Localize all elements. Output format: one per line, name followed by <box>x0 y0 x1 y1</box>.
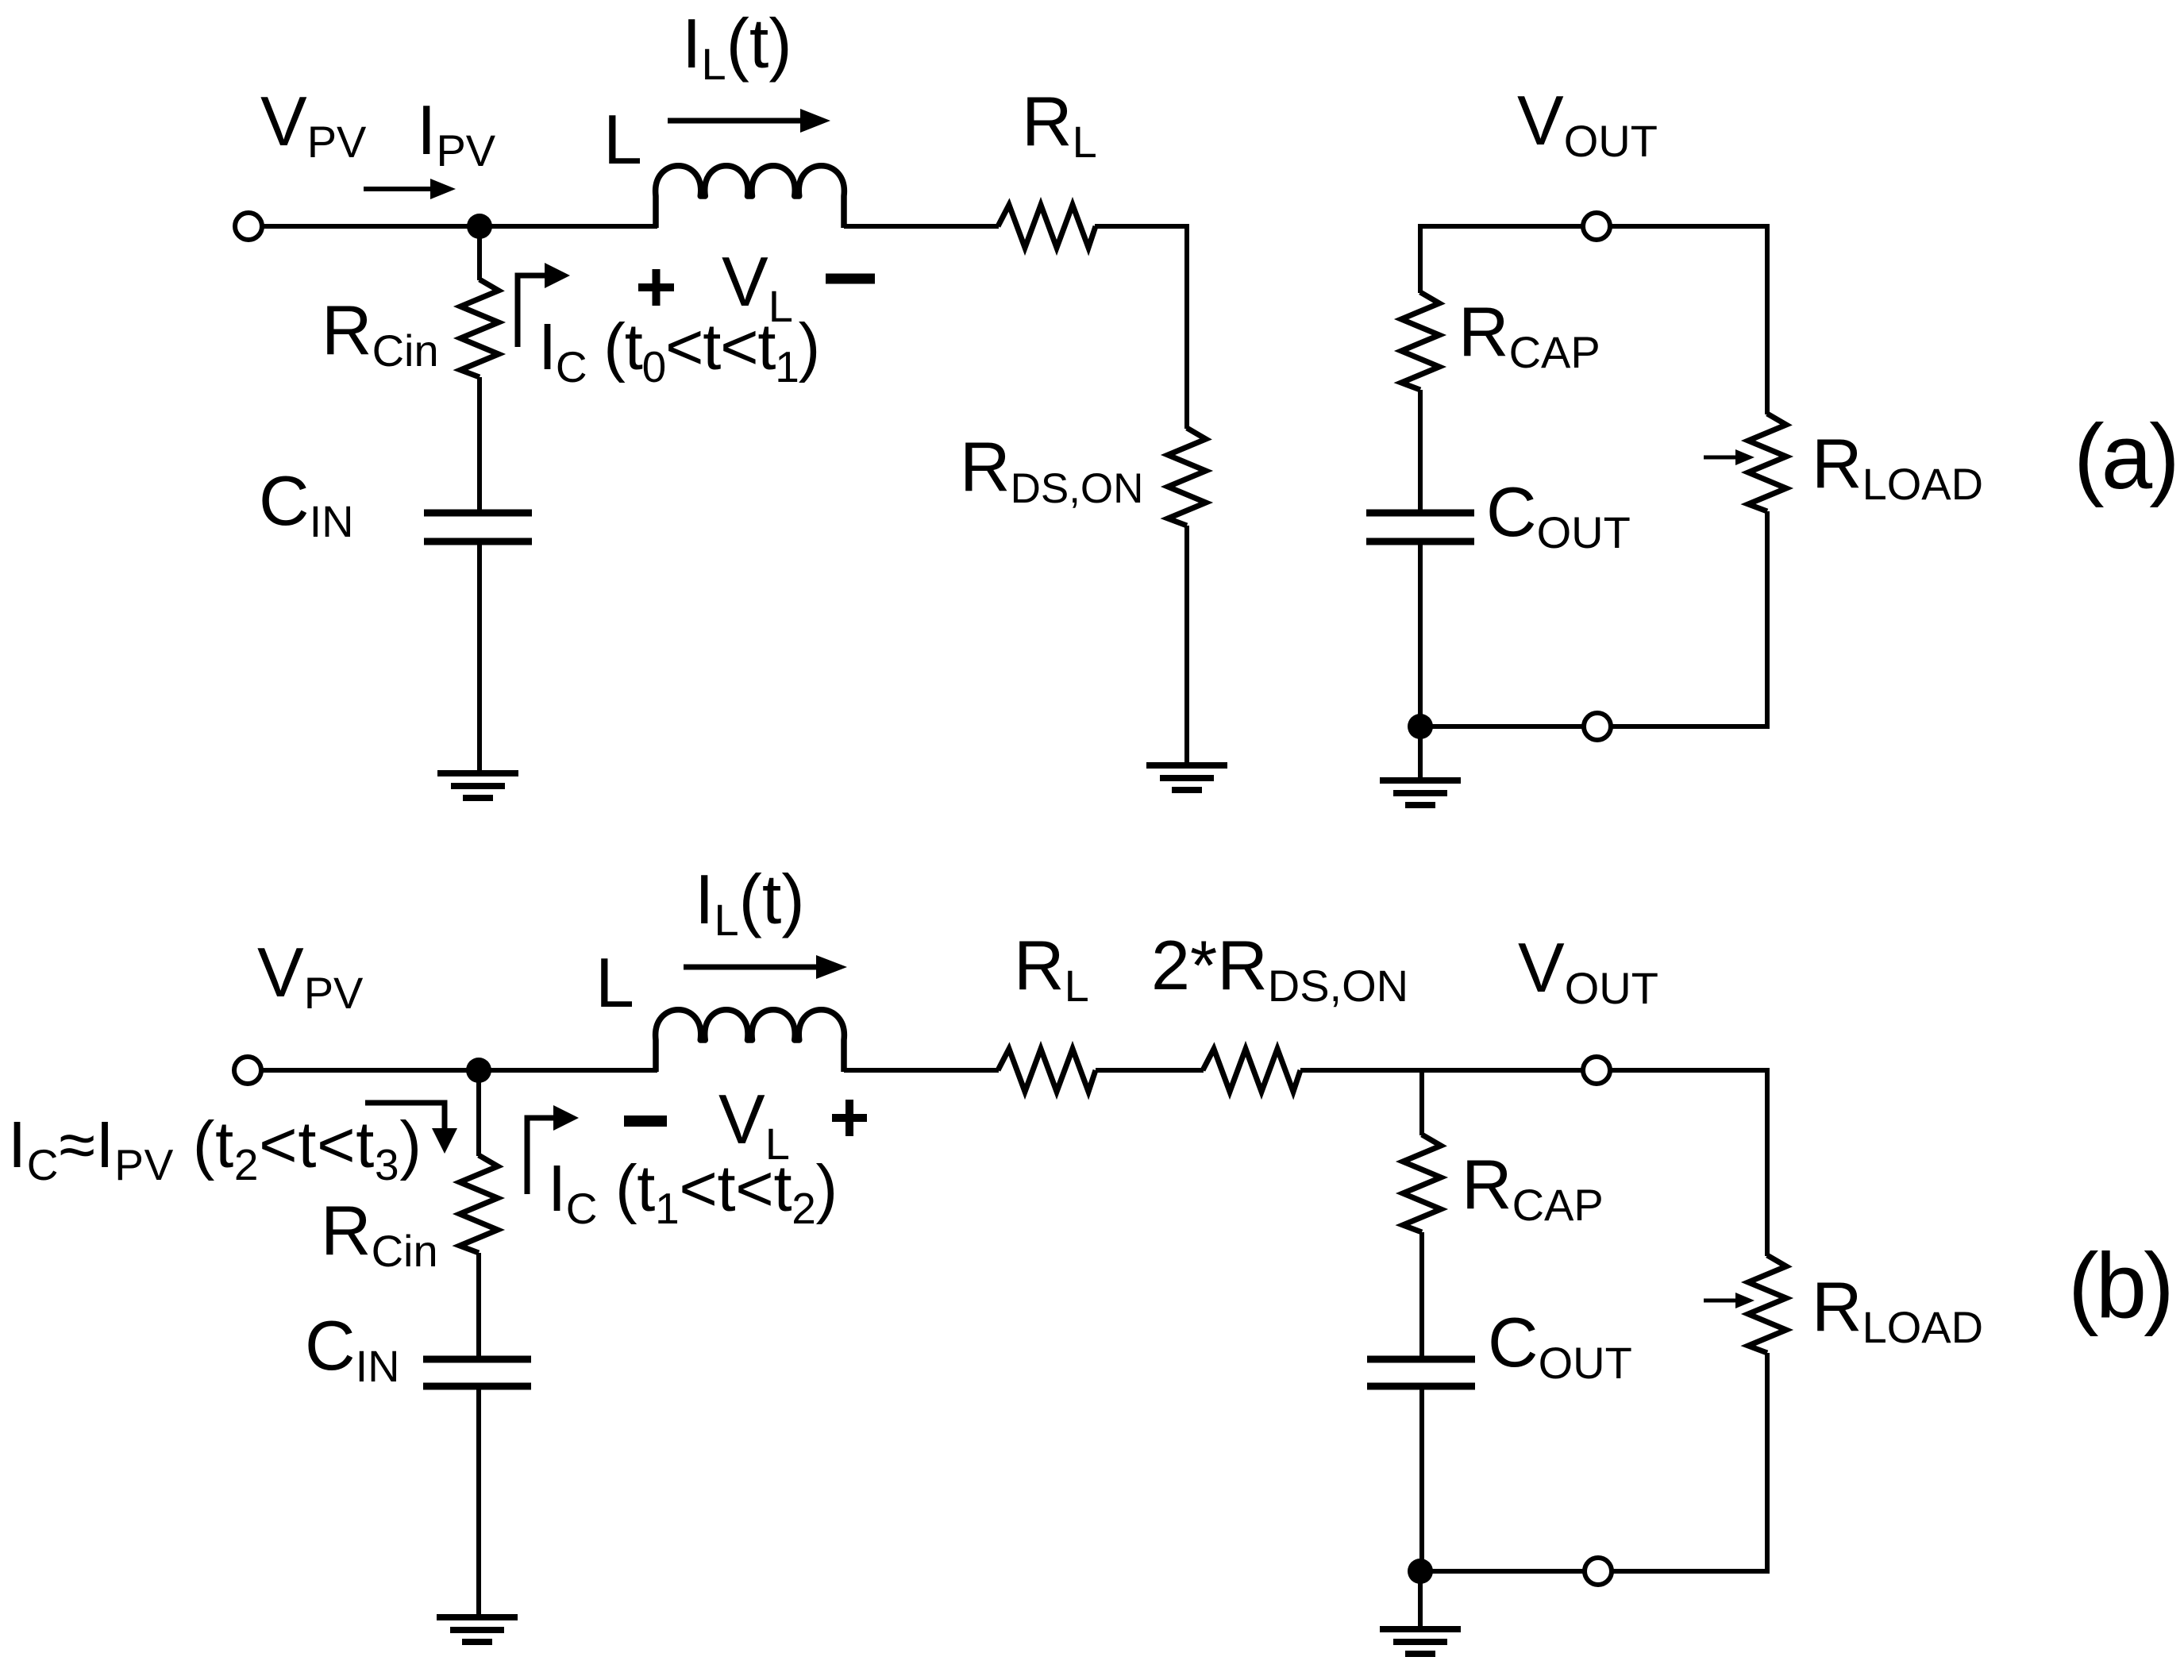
wire: right rail upper segment (b) <box>1765 1068 1770 1256</box>
arrow: bent I_C arrow at R_Cin (b) <box>527 1105 579 1194</box>
wire: output bottom rail (b) <box>1420 1569 1767 1574</box>
wire: node to ground (b) <box>1418 1571 1423 1629</box>
wire: inductor to R_L (a) <box>844 224 999 229</box>
resistor R_L (a) <box>998 205 1096 248</box>
wire: output bottom rail (a) <box>1420 724 1767 729</box>
ground: below R_DS,ON (a) <box>1146 765 1227 790</box>
capacitor C_OUT (b) <box>1367 1359 1475 1386</box>
circuit (a): input terminal (open circle) at V_PV <box>235 213 262 240</box>
inductor L (b) <box>656 1010 845 1072</box>
node: output ground node (a) <box>1408 714 1433 739</box>
wire: input terminal to inductor L (a) <box>262 224 657 229</box>
wire: right rail upper segment (a) <box>1765 224 1770 414</box>
terminal: output bottom (b) <box>1585 1558 1612 1585</box>
node: input node joining R_Cin branch (b) <box>466 1058 491 1083</box>
arrow: I_L(t) current arrow (b) <box>684 955 847 979</box>
ground: below C_IN (b) <box>437 1617 518 1642</box>
wire: R_Cin to C_IN (b) <box>476 1253 481 1358</box>
resistor R_LOAD rheostat (b) <box>1748 1255 1786 1353</box>
arrow: I_C ~ I_PV bent down-arrow (b) <box>365 1103 457 1154</box>
svg-text:L: L <box>603 100 642 179</box>
wire: node to R_Cin (b) <box>476 1070 481 1156</box>
wire: C_OUT to bottom node (a) <box>1418 545 1423 726</box>
wire: R_L to 2*R_DS,ON (b) <box>1096 1068 1204 1073</box>
label + plus sign of V_L (b) <box>832 1100 867 1136</box>
wire: C_IN to ground (a) <box>477 545 482 773</box>
wire: output top rail (a) <box>1420 224 1767 229</box>
resistor R_CAP (b) <box>1403 1135 1441 1232</box>
capacitor C_IN (a) <box>424 513 532 541</box>
ground: output network (b) <box>1380 1629 1461 1654</box>
wire: R_L to top-right corner (a) <box>1095 224 1189 229</box>
ground: output network (a) <box>1380 780 1461 805</box>
svg-text:(b): (b) <box>2068 1234 2171 1337</box>
terminal: output bottom (a) <box>1584 713 1611 740</box>
node: output ground node (b) <box>1408 1559 1433 1584</box>
wire: right rail lower segment (a) <box>1765 511 1770 729</box>
wire: vertical down to R_DS,ON (a) <box>1184 224 1189 429</box>
resistor R_Cin (b) <box>460 1155 498 1253</box>
arrow: I_L(t) current arrow (a) <box>668 109 830 133</box>
terminal: V_OUT top (a) <box>1583 213 1610 240</box>
arrow: rheostat wiper arrow (b) <box>1704 1293 1755 1308</box>
resistor 2*R_DS,ON (b) <box>1203 1049 1300 1092</box>
svg-text:(a): (a) <box>2074 405 2177 508</box>
resistor R_L (b) <box>998 1049 1096 1092</box>
wire: input terminal to inductor L (b) <box>261 1068 657 1073</box>
label - minus sign of V_L (b) <box>624 1116 667 1127</box>
wire: R_CAP to C_OUT (a) <box>1418 390 1423 511</box>
wire: C_IN to ground (b) <box>476 1389 481 1616</box>
svg-text:L: L <box>595 943 634 1022</box>
svg-text:IC≈IPV (t2<t<t3): IC≈IPV (t2<t<t3) <box>8 1108 422 1189</box>
circuit (b): input terminal (open circle) at V_PV <box>234 1057 261 1084</box>
wire: top rail down to R_CAP (a) <box>1418 224 1423 293</box>
inductor L (a) <box>656 166 845 228</box>
ground: below C_IN (a) <box>437 773 518 798</box>
resistor R_Cin (a) <box>460 279 499 377</box>
resistor R_LOAD rheostat (a) <box>1748 414 1786 511</box>
wire: right rail lower segment (b) <box>1765 1353 1770 1574</box>
wire: R_CAP to C_OUT (b) <box>1419 1232 1424 1358</box>
resistor R_CAP (a) <box>1401 292 1439 390</box>
wire: junction down to R_CAP (b) <box>1419 1070 1424 1135</box>
wire: C_OUT to bottom node (b) <box>1419 1389 1424 1571</box>
arrow: rheostat wiper arrow (a) <box>1704 449 1755 465</box>
label - minus sign of V_L (a) <box>826 274 875 284</box>
capacitor C_OUT (a) <box>1366 513 1474 541</box>
arrow: I_PV current arrow (a) <box>364 179 456 199</box>
svg-text:IL(t): IL(t) <box>695 860 805 945</box>
capacitor C_IN (b) <box>423 1359 531 1386</box>
arrow: bent I_C arrow at R_Cin (a) <box>518 263 570 347</box>
resistor R_DS,ON (a) <box>1168 428 1206 526</box>
wire: node to R_Cin (a) <box>477 226 482 280</box>
label + plus sign of V_L (a) <box>638 269 674 306</box>
wire: R_Cin to C_IN (a) <box>477 377 482 511</box>
wire: inductor to R_L (b) <box>844 1068 999 1073</box>
wire: R_DS,ON to ground (a) <box>1184 526 1189 765</box>
svg-text:IL(t): IL(t) <box>682 4 792 89</box>
wire: 2*R_DS,ON to right rail (b) <box>1300 1068 1767 1073</box>
terminal: V_OUT top (b) <box>1583 1057 1610 1084</box>
node: input node joining R_Cin branch (a) <box>467 214 492 239</box>
wire: node to ground (a) <box>1418 726 1423 780</box>
